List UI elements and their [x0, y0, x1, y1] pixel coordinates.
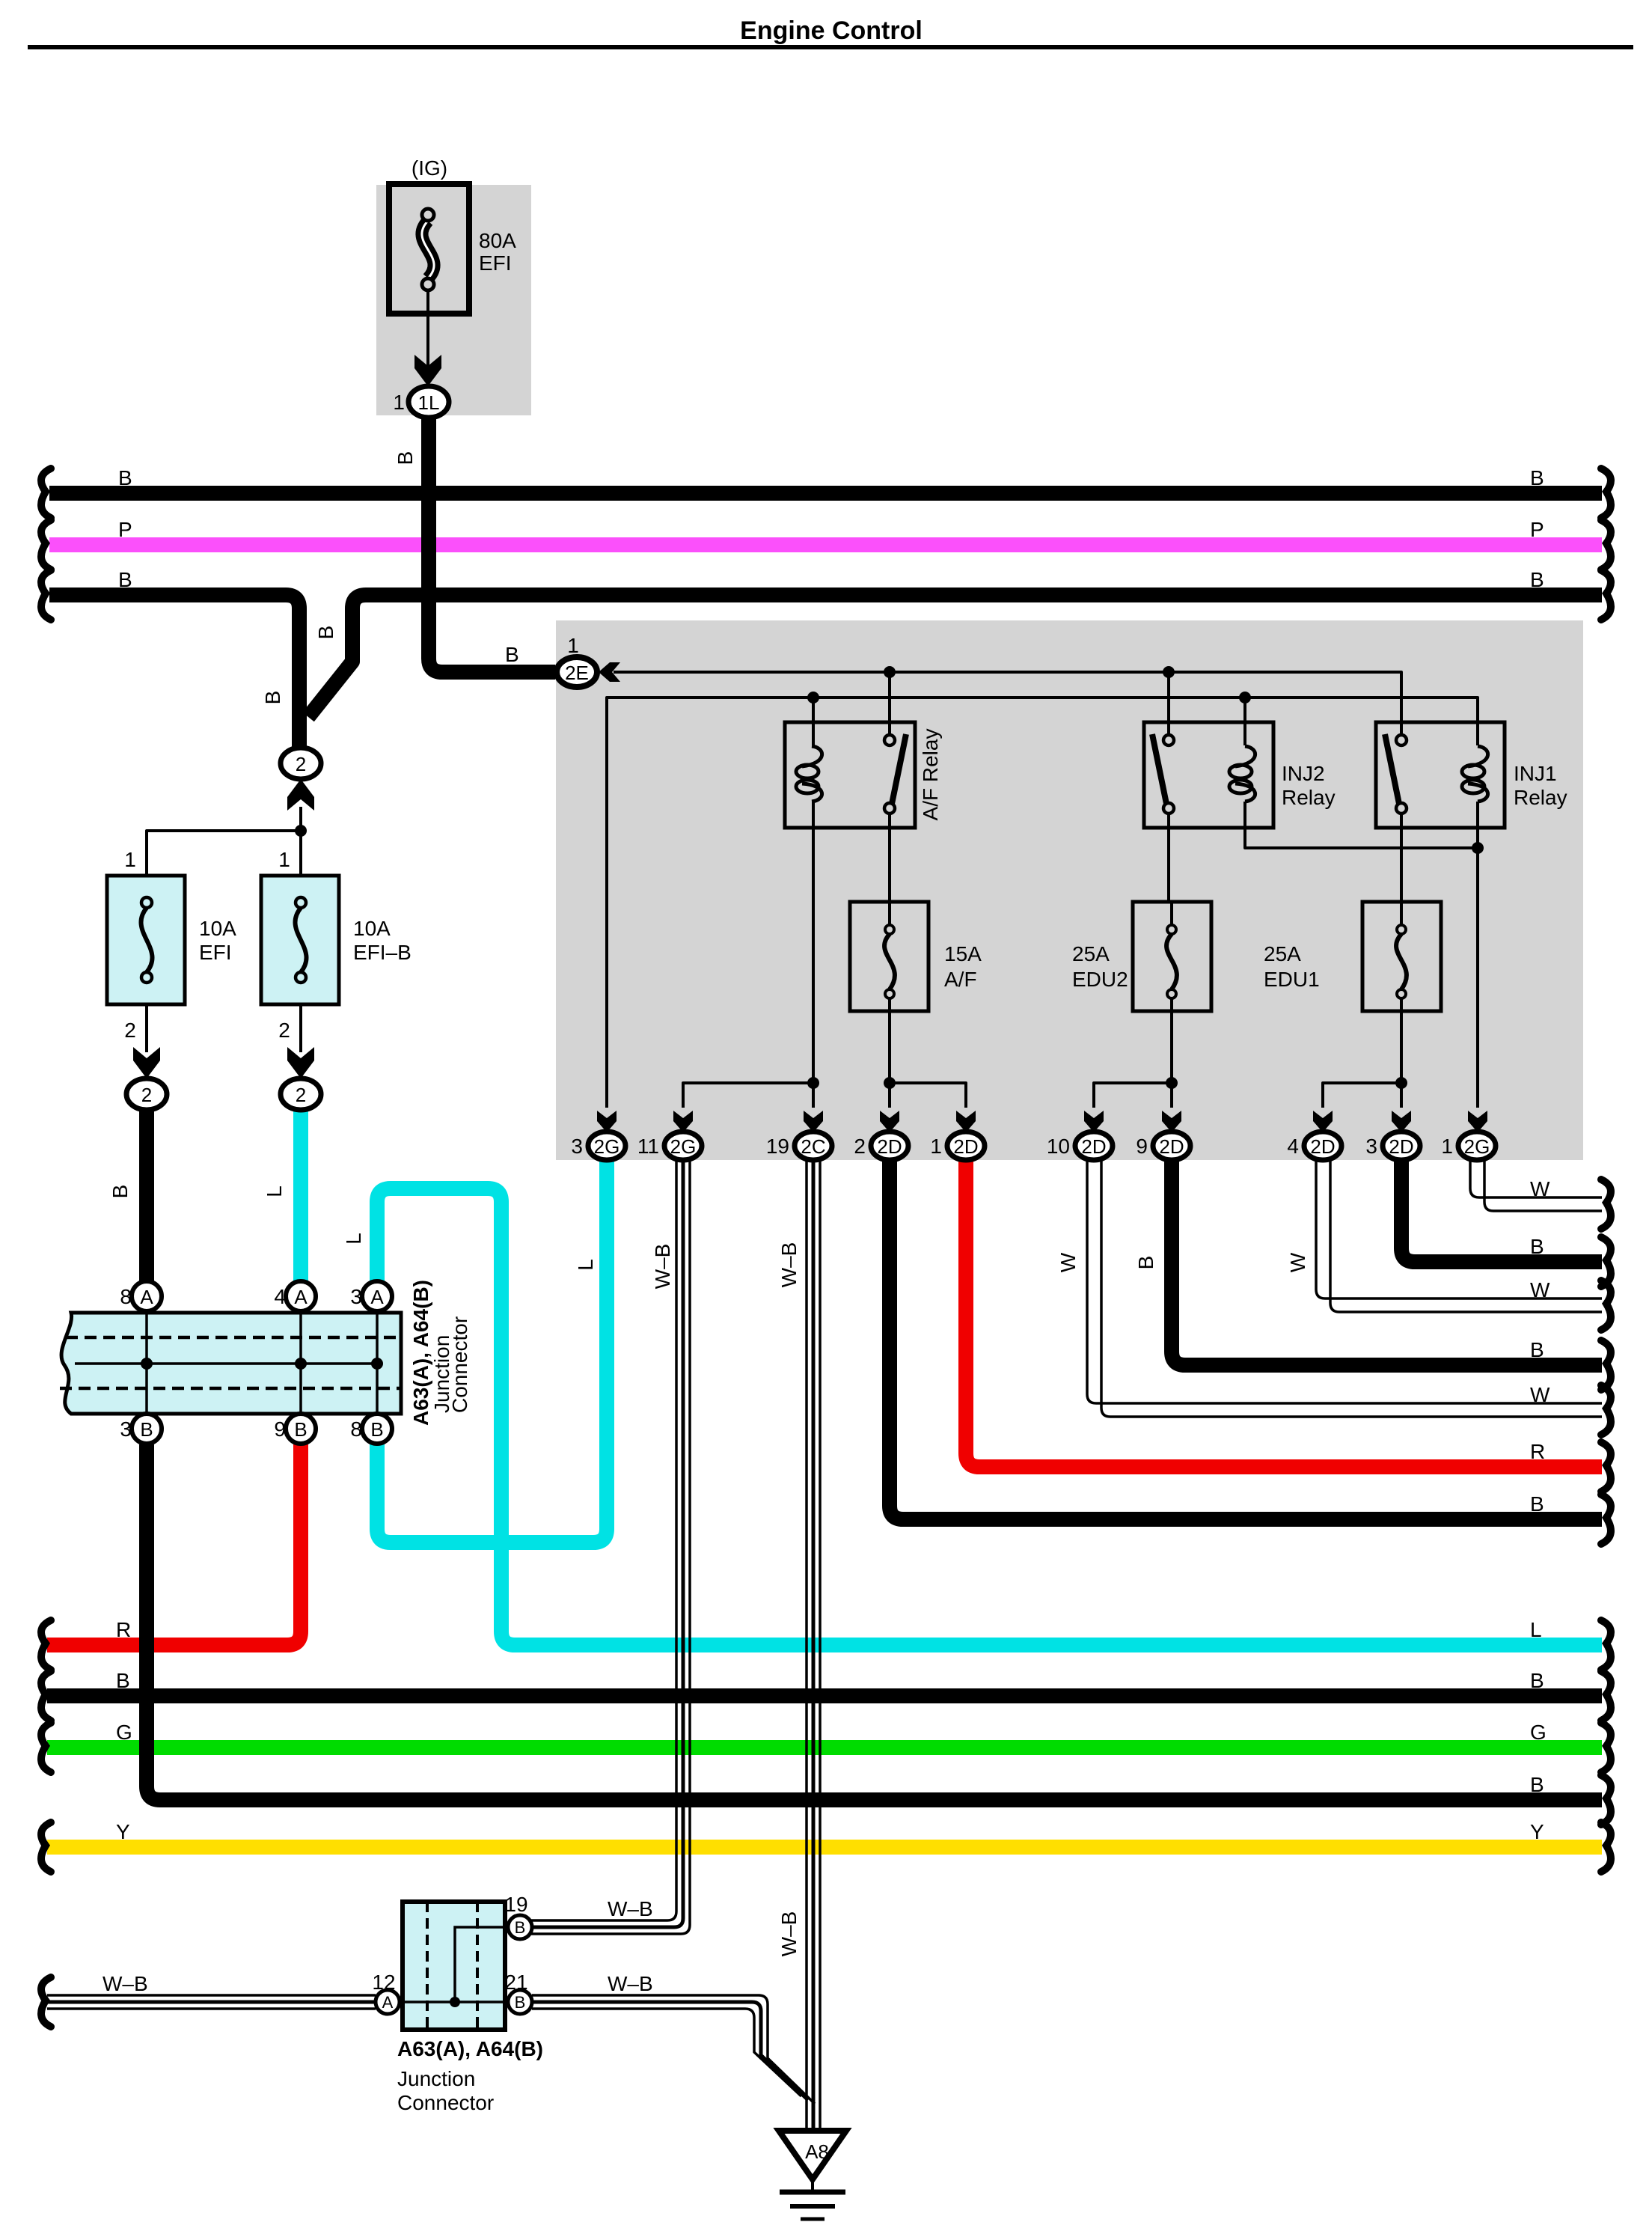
svg-text:3: 3 [571, 1135, 583, 1158]
arrow into pin 9 2D [1162, 1111, 1181, 1132]
svg-text:B: B [1530, 466, 1544, 489]
wire B bus lower, left segment turning down to oval 2 [49, 595, 299, 747]
wire junction bar joining tops of 10A fuses [147, 831, 301, 876]
lower junction connector dashed line left [426, 1902, 429, 2030]
junction dot INJ2 to 10 2D / 9 2D [1166, 1077, 1178, 1089]
wire B bus top [49, 486, 1602, 501]
svg-text:B: B [1530, 568, 1544, 591]
brace right L bus [1601, 1620, 1611, 1670]
brace right W wire 10 2D [1601, 1385, 1611, 1435]
svg-text:P: P [118, 518, 132, 541]
svg-text:A/F: A/F [944, 968, 977, 991]
svg-text:W–B: W–B [777, 1911, 801, 1957]
junction connector pin circle 3A [362, 1281, 392, 1311]
lower junction connector internal dot [450, 1997, 460, 2007]
wire feed line 1 from 2E arrow to relay switches, ends at INJ1 switch [614, 672, 1401, 734]
svg-text:W–B: W–B [777, 1242, 801, 1288]
svg-text:B: B [1134, 1256, 1157, 1270]
svg-text:Relay: Relay [1282, 786, 1336, 809]
wire W from ECU pin 1 2G down then right to right edge (double line) [1470, 1159, 1602, 1197]
svg-text:B: B [1530, 1338, 1544, 1361]
svg-text:2D: 2D [1081, 1135, 1106, 1158]
arrow into pin 1 2D [956, 1111, 976, 1132]
junction dot line2 INJ2 coil [1239, 692, 1251, 704]
arrow into oval 2 below 10A EFI-B [287, 1047, 314, 1078]
arrow into oval 2 below 10A EFI [133, 1047, 160, 1078]
junction connector pin circle 4A [286, 1281, 316, 1311]
relay A/F coil [796, 746, 822, 802]
connector oval 2D pin 4 [1304, 1132, 1342, 1160]
svg-text:Engine Control: Engine Control [740, 16, 923, 45]
svg-text:8: 8 [120, 1285, 132, 1308]
brace right W wire 1 2G [1601, 1179, 1611, 1229]
svg-text:A: A [370, 1286, 384, 1308]
svg-text:B: B [370, 1418, 383, 1441]
fuse 25A EDU1 element [1396, 925, 1407, 998]
wire branch from line 1 down to A/F relay switch [888, 672, 891, 734]
fuse 25A EDU2 box [1133, 902, 1211, 1011]
arrow into pin 4 2D [1313, 1111, 1333, 1132]
junction dot A/F switch to 2 2D / 1 2D [884, 1077, 896, 1089]
svg-text:2D: 2D [1159, 1135, 1184, 1158]
arrow into connector 1L [414, 355, 441, 386]
svg-text:G: G [1530, 1721, 1547, 1744]
svg-text:B: B [261, 691, 284, 705]
brace right B wire 9 2D [1601, 1340, 1611, 1390]
svg-text:2D: 2D [1310, 1135, 1335, 1158]
arrow into pin 3 2D [1392, 1111, 1411, 1132]
svg-text:2C: 2C [801, 1135, 825, 1158]
wire P bus (pink) [49, 537, 1602, 552]
relay INJ2 box [1144, 722, 1273, 828]
svg-text:1: 1 [1441, 1135, 1453, 1158]
lower junction connector pin circle 21B [508, 1990, 532, 2014]
wire W-B from left edge to lower junction connector pin 12A [47, 1994, 376, 1997]
svg-text:B: B [1530, 1669, 1544, 1692]
junction dot INJ coils common [1472, 842, 1484, 854]
fuse 15A A/F box [850, 902, 929, 1011]
svg-text:15A: 15A [944, 942, 982, 965]
brace left B bus lower [41, 570, 51, 620]
brace right W wire 4 2D [1601, 1281, 1611, 1330]
wire W-B from lower junction connector pin 21B right and down to ground A8 [532, 1995, 815, 2104]
svg-text:4: 4 [1287, 1135, 1299, 1158]
arrow up into oval 2 above 10A fuses [287, 779, 314, 811]
brace right B wire 2 2D [1601, 1495, 1611, 1544]
relay INJ1 coil [1462, 746, 1488, 802]
svg-text:B: B [140, 1418, 153, 1441]
arrow into ECU pin 2E [599, 662, 620, 682]
wire feed line 2 from ECU pin 3 2G up, across to INJ1 relay coil [607, 698, 1478, 1108]
junction connector pin circle 8B [362, 1414, 392, 1444]
fuse 80A EFI box [389, 184, 469, 314]
wire branch from line 1 down to INJ2 relay switch [1167, 672, 1170, 734]
svg-text:10A: 10A [353, 917, 391, 940]
junction connector internal dots [141, 1358, 153, 1370]
wire B from junction connector pin 3B down then right to right edge [147, 1444, 1602, 1800]
brace right B wire 3 2D [1601, 1237, 1611, 1287]
svg-text:W: W [1530, 1278, 1550, 1301]
fuse 10A EFI element [141, 897, 152, 983]
junction connector dashed line lower [60, 1387, 401, 1391]
brace right B bus lower [1601, 570, 1611, 620]
svg-text:12: 12 [372, 1971, 395, 1994]
fuse 80A EFI element [422, 209, 434, 290]
brace right B bus mid [1601, 1671, 1611, 1721]
svg-text:(IG): (IG) [412, 156, 447, 180]
junction connector pin circle 3B [132, 1414, 162, 1444]
svg-text:2: 2 [854, 1135, 866, 1158]
svg-text:P: P [1530, 518, 1544, 541]
arrow into pin 1 2G [1468, 1111, 1487, 1132]
svg-text:2G: 2G [594, 1135, 620, 1158]
wire B from ECU pin 9 2D down then right to right edge [1172, 1159, 1602, 1365]
svg-text:10A: 10A [199, 917, 236, 940]
junction connector pin circle 8A [132, 1281, 162, 1311]
junction connector internal pin line 8A-3B [145, 1313, 148, 1414]
svg-text:3: 3 [120, 1417, 132, 1441]
fuse 15A A/F element [884, 925, 895, 998]
svg-text:Y: Y [1530, 1820, 1544, 1843]
svg-text:B: B [116, 1669, 130, 1692]
wire W-B from ECU pin 11 2G down then left to lower junction connector pin 19B [531, 1159, 676, 1920]
svg-text:W–B: W–B [608, 1897, 653, 1920]
svg-text:EDU1: EDU1 [1264, 968, 1320, 991]
brace left G bus [41, 1723, 51, 1772]
svg-text:10: 10 [1047, 1135, 1070, 1158]
wire B bus lower, right segment with branch down joining oval 2 feed [308, 595, 1602, 717]
wire L from EFI-B fuse oval 2 down to junction connector pin 4A [293, 1109, 308, 1283]
connector oval 2D pin 2 [871, 1132, 908, 1160]
wire L from junction connector pin 8B down right and up to ECU pin 3 2G [377, 1159, 607, 1542]
svg-text:2D: 2D [953, 1135, 978, 1158]
svg-text:3: 3 [350, 1285, 362, 1308]
svg-text:8: 8 [350, 1417, 362, 1441]
svg-text:B: B [505, 643, 519, 666]
lower junction connector internal line A12 to B21 [388, 2000, 520, 2003]
svg-text:Relay: Relay [1514, 786, 1567, 809]
wire branch right down to 1 2D [890, 1083, 966, 1108]
svg-text:9: 9 [274, 1417, 286, 1441]
svg-text:W–B: W–B [103, 1972, 148, 1995]
svg-text:80A: 80A [479, 229, 516, 252]
relay INJ2 coil [1229, 746, 1255, 802]
relay A/F box [785, 722, 915, 828]
svg-text:W: W [1056, 1252, 1080, 1272]
svg-text:L: L [342, 1233, 365, 1245]
connector oval 2D pin 1 [947, 1132, 985, 1160]
svg-text:L: L [263, 1185, 286, 1197]
brace left R wire [41, 1620, 51, 1670]
svg-text:19: 19 [766, 1135, 789, 1158]
relay A/F switch [884, 734, 906, 814]
connector oval 2 below 10A EFI-B [281, 1078, 321, 1110]
arrow into pin 19 2C [804, 1111, 823, 1132]
svg-text:EFI: EFI [199, 941, 232, 964]
svg-text:Connector: Connector [448, 1316, 471, 1413]
svg-text:2E: 2E [565, 662, 589, 684]
svg-text:3: 3 [1365, 1135, 1377, 1158]
connector oval 2D pin 9 [1153, 1132, 1190, 1160]
svg-text:B: B [394, 451, 417, 466]
brace right Y bus [1601, 1822, 1611, 1872]
svg-text:2: 2 [124, 1019, 136, 1042]
junction dot line1 INJ2 switch [1163, 666, 1175, 678]
svg-text:W: W [1530, 1383, 1550, 1406]
svg-text:A8: A8 [805, 2140, 829, 2163]
svg-text:B: B [294, 1418, 307, 1441]
connector oval 2D pin 3 [1383, 1132, 1420, 1160]
svg-text:2G: 2G [1464, 1135, 1490, 1158]
relay INJ1 box [1376, 722, 1505, 828]
arrow into pin 11 2G [673, 1111, 693, 1132]
svg-text:A63(A), A64(B): A63(A), A64(B) [397, 2037, 543, 2060]
svg-text:25A: 25A [1264, 942, 1301, 965]
fuse 10A EFI-B box [261, 876, 339, 1004]
brace left Y bus [41, 1822, 51, 1872]
svg-text:B: B [1530, 1773, 1544, 1796]
relay INJ1 switch [1385, 734, 1407, 814]
lower junction connector dashed line right [476, 1902, 479, 2030]
title rule [28, 45, 1633, 49]
svg-text:B: B [1530, 1492, 1544, 1516]
brace right B bus top [1601, 469, 1611, 518]
brace right R wire 1 2D [1601, 1442, 1611, 1492]
svg-text:W–B: W–B [651, 1244, 674, 1290]
svg-text:B: B [515, 1918, 526, 1937]
fuse 10A EFI box [107, 876, 185, 1004]
junction connector internal bus line [75, 1362, 377, 1365]
connector oval 2C pin 19 [795, 1132, 832, 1160]
brace left P bus [41, 520, 51, 570]
junction connector internal pin line 4A-9B [299, 1313, 302, 1414]
wire G bus (green) [47, 1740, 1602, 1755]
arrow into pin 2 2D [880, 1111, 899, 1132]
svg-text:A: A [294, 1286, 308, 1308]
svg-text:B: B [1530, 1235, 1544, 1258]
svg-text:Junction: Junction [397, 2067, 475, 2090]
wire B from ECU pin 2 2D down then right to right edge [890, 1159, 1602, 1519]
fuse 25A EDU1 box [1362, 902, 1441, 1011]
svg-text:B: B [108, 1185, 132, 1199]
svg-text:B: B [118, 466, 132, 489]
junction dot above 10A fuses [295, 825, 307, 837]
svg-text:L: L [1530, 1618, 1542, 1641]
svg-text:21: 21 [504, 1971, 527, 1994]
lower junction connector pin circle 19B [508, 1915, 532, 1939]
wire A/F relay coil down to junction then 19 2C [812, 802, 815, 1108]
brace right P bus [1601, 520, 1611, 570]
svg-text:EFI: EFI [479, 251, 512, 275]
wire B from connector 1L down then right to ECU pin 1 2E [429, 415, 555, 672]
svg-text:1: 1 [278, 848, 290, 871]
gray panel ECU relay/fuse block [556, 620, 1583, 1160]
svg-text:A: A [382, 1993, 394, 2012]
svg-text:B: B [118, 568, 132, 591]
svg-text:19: 19 [504, 1893, 527, 1916]
svg-text:B: B [314, 626, 337, 640]
lower junction connector internal line from B19 [455, 1927, 515, 2000]
arrow into pin 10 2D [1084, 1111, 1104, 1132]
svg-text:A63(A), A64(B): A63(A), A64(B) [409, 1280, 432, 1426]
svg-text:Connector: Connector [397, 2091, 494, 2114]
svg-text:W: W [1530, 1177, 1550, 1200]
svg-text:1L: 1L [418, 391, 440, 414]
junction connector dashed line upper [66, 1336, 401, 1340]
brace left W-B wire [41, 1977, 51, 2027]
svg-text:R: R [116, 1618, 131, 1641]
connector oval 2 below 10A EFI [126, 1078, 167, 1110]
wire B bus mid (full width) [47, 1688, 1602, 1703]
wire INJ1 relay coil down to 1 2G [1476, 802, 1479, 1108]
ground stem and bars [780, 2179, 845, 2219]
wire W from ECU pin 10 2D down then right to right edge (double line) [1087, 1159, 1602, 1403]
svg-text:W–B: W–B [608, 1972, 653, 1995]
wire 10A EFI fuse pin 2 down to arrow [145, 1004, 148, 1052]
svg-text:Y: Y [116, 1820, 130, 1843]
wire from oval 2 down to 10A fuse junction [299, 807, 302, 831]
fuse 25A EDU2 element [1166, 925, 1177, 998]
relay INJ2 switch [1152, 734, 1174, 814]
fuse 10A EFI-B element [295, 897, 306, 983]
gray panel around 80A fuse [376, 185, 531, 415]
svg-text:B: B [515, 1993, 526, 2012]
connector oval 2D pin 10 [1075, 1132, 1113, 1160]
junction dot line2 A/F coil [807, 692, 819, 704]
wire branch left down to 4 2D [1323, 1083, 1401, 1108]
wire branch from A/F coil junction left down to 11 2G [683, 1083, 813, 1108]
svg-text:2: 2 [296, 753, 306, 775]
wire A/F relay switch through 15A fuse down to 2 2D [888, 814, 891, 925]
connector oval 2G pin 3 [588, 1132, 625, 1160]
wire L loop from junction connector pin 3A up right and down to L bus [377, 1188, 1602, 1645]
wire 10A EFI-B fuse pin 2 down to arrow [299, 1004, 302, 1052]
svg-text:2D: 2D [1389, 1135, 1413, 1158]
svg-text:2D: 2D [877, 1135, 902, 1158]
wire INJ2 relay coil down then right to INJ1 coil line [1245, 802, 1478, 848]
wire B from ECU pin 3 2D down then right to right edge [1401, 1159, 1602, 1262]
brace left B bus top [41, 469, 51, 518]
svg-text:2: 2 [278, 1019, 290, 1042]
svg-text:9: 9 [1136, 1135, 1148, 1158]
connector oval 1L [409, 386, 449, 418]
lower junction connector pin circle 12A [376, 1990, 400, 2014]
svg-text:A: A [140, 1286, 153, 1308]
brace left B bus mid [41, 1671, 51, 1721]
svg-text:1: 1 [124, 848, 136, 871]
wire B from 10A EFI fuse oval 2 down to junction connector pin 8A [139, 1109, 154, 1283]
svg-text:25A: 25A [1072, 942, 1110, 965]
brace right B wire from 3B [1601, 1775, 1611, 1825]
wire W-B from ECU pin 19 2C down to ground A8 [805, 1159, 808, 2131]
svg-text:INJ1: INJ1 [1514, 762, 1557, 785]
svg-text:G: G [116, 1721, 132, 1744]
wire INJ2 relay switch through 25A EDU2 fuse down to 9 2D [1169, 814, 1172, 1108]
svg-text:W: W [1286, 1252, 1309, 1272]
svg-text:2G: 2G [670, 1135, 697, 1158]
wire R from ECU pin 1 2D down to right edge [966, 1159, 1602, 1467]
junction dot A/F coil to 11 2G / 19 2C [807, 1077, 819, 1089]
wire W from ECU pin 4 2D down then right to right edge (double line) [1316, 1159, 1602, 1298]
arrow into pin 3 2G [597, 1111, 617, 1132]
svg-text:1: 1 [567, 634, 579, 657]
connector oval 2G pin 11 [664, 1132, 702, 1160]
svg-text:R: R [1530, 1440, 1545, 1463]
connector oval 2G pin 1 [1458, 1132, 1496, 1160]
wire branch left down to 10 2D [1094, 1083, 1172, 1108]
svg-text:A/F Relay: A/F Relay [919, 729, 942, 821]
svg-text:1: 1 [393, 391, 405, 414]
lower junction connector A63/A64 box [403, 1902, 505, 2030]
junction connector A63/A64 bar [61, 1313, 401, 1414]
wire branch from line 2 down to A/F relay coil [812, 698, 815, 745]
junction dot INJ1 to 4 2D / 3 2D [1395, 1077, 1407, 1089]
brace right G bus [1601, 1723, 1611, 1772]
ground A8 triangle [779, 2131, 846, 2179]
wire R from junction connector pin 9B down to left edge [47, 1444, 301, 1645]
junction connector pin circle 9B [286, 1414, 316, 1444]
wire branch from line 2 down to INJ2 relay coil [1243, 698, 1246, 745]
svg-text:4: 4 [274, 1285, 286, 1308]
svg-text:2: 2 [141, 1084, 152, 1106]
svg-text:INJ2: INJ2 [1282, 762, 1325, 785]
wire Y bus (yellow) [47, 1840, 1602, 1855]
svg-text:L: L [574, 1259, 597, 1271]
junction dot line1 A/F switch [884, 666, 896, 678]
connector oval 2 above fuses [281, 748, 321, 779]
svg-text:1: 1 [930, 1135, 942, 1158]
svg-text:EFI–B: EFI–B [353, 941, 412, 964]
connector oval 2E [557, 657, 597, 687]
svg-text:EDU2: EDU2 [1072, 968, 1128, 991]
wire from 80A fuse to connector 1L arrow [426, 290, 429, 374]
svg-text:11: 11 [637, 1135, 659, 1158]
wire INJ1 relay switch through 25A EDU1 fuse down to 3 2D [1400, 814, 1403, 1108]
svg-text:2: 2 [296, 1084, 306, 1106]
junction connector internal pin line 3A-8B [376, 1313, 379, 1414]
